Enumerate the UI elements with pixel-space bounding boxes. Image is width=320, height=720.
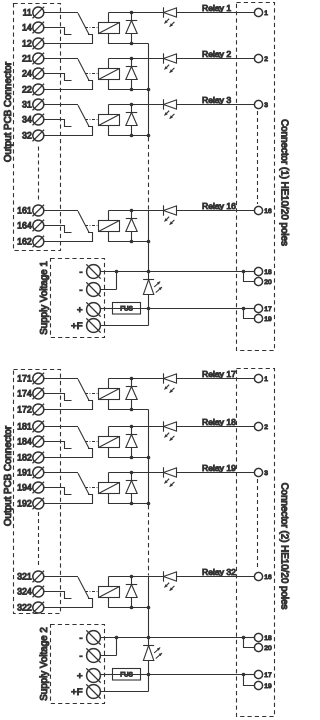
- svg-text:174: 174: [17, 389, 32, 399]
- pin 17 of connector (1): [254, 304, 262, 312]
- svg-text:31: 31: [22, 100, 32, 110]
- svg-text:21: 21: [22, 54, 32, 64]
- wire relay common return chain: [148, 410, 150, 505]
- wire 174 to NC contact: [44, 394, 72, 401]
- mechanical link to coil K19: [85, 487, 99, 489]
- dashed box Connector (2): [237, 369, 275, 717]
- terminal 181: [33, 421, 45, 433]
- wire coil top to drive line: [108, 379, 110, 389]
- wire to pin 17: [244, 308, 255, 310]
- terminal supply plus: [86, 302, 100, 316]
- dashed box Supply Voltage 1: [51, 259, 105, 338]
- wire 31 to contact common: [44, 104, 78, 106]
- node junction: [130, 471, 134, 475]
- terminal 21: [33, 53, 45, 65]
- wire to pin 20: [244, 272, 255, 282]
- node junction: [130, 425, 134, 429]
- pin 19 of connector (1): [254, 314, 262, 322]
- relay contact blade K32: [78, 577, 89, 599]
- wire 24 to NC contact: [44, 74, 72, 81]
- pin 18 of connector (1): [254, 267, 262, 275]
- svg-text:-: -: [79, 633, 82, 644]
- wire fused output line: [141, 674, 244, 676]
- wire to pin 20: [244, 638, 255, 648]
- svg-text:Relay 1: Relay 1: [202, 3, 231, 13]
- relay coil K19: [99, 483, 120, 494]
- node junction: [130, 209, 134, 213]
- svg-text:14: 14: [22, 23, 32, 33]
- terminal 321: [33, 571, 45, 583]
- flyback diode of K19: [126, 473, 137, 504]
- wire coil common: [109, 448, 149, 458]
- wire coil common: [109, 126, 149, 136]
- svg-text:20: 20: [264, 645, 272, 652]
- flyback diode of K2: [126, 59, 137, 90]
- pin 1 of connector (2): [254, 374, 262, 382]
- svg-text:18: 18: [264, 635, 272, 642]
- node minus bus tap: [147, 636, 151, 640]
- svg-text:324: 324: [17, 587, 32, 597]
- svg-text:FUS: FUS: [120, 672, 133, 679]
- wire drive line left: [109, 576, 164, 578]
- LED indicator of Relay 17: [164, 373, 177, 392]
- terminal supply minus b: [86, 282, 100, 296]
- flyback diode of K32: [126, 577, 137, 608]
- wire 184 to NC contact: [44, 442, 72, 449]
- svg-text:Relay 16: Relay 16: [202, 201, 236, 211]
- svg-text:-: -: [79, 651, 82, 662]
- svg-text:12: 12: [22, 39, 32, 49]
- wire drive line right: [177, 210, 255, 212]
- wire 162 to NO contact: [44, 233, 93, 242]
- wire to pin 18: [244, 637, 255, 639]
- relay contact blade K16: [78, 211, 89, 233]
- terminal supply plus fused: [86, 318, 100, 332]
- wire to pin 19: [244, 309, 255, 319]
- svg-text:192: 192: [17, 499, 32, 509]
- LED indicator of Relay 3: [164, 99, 177, 118]
- LED indicator of Relay 18: [164, 421, 177, 440]
- svg-text:181: 181: [17, 422, 32, 432]
- dashed box Output PCB Connector (1): [14, 4, 61, 251]
- wire fused output line: [141, 308, 244, 310]
- terminal 182: [33, 452, 45, 464]
- flyback diode of K17: [126, 379, 137, 410]
- terminal 31: [33, 99, 45, 111]
- dashed box Connector (1): [237, 3, 275, 351]
- node minus join: [115, 270, 119, 274]
- pin 20 of connector (1): [254, 277, 262, 285]
- terminal 12: [33, 38, 45, 50]
- mechanical link to coil K18: [85, 441, 99, 443]
- svg-text:Connector (1) HE10/20 poles: Connector (1) HE10/20 poles: [279, 119, 290, 246]
- flyback diode of K16: [126, 211, 137, 242]
- terminal 191: [33, 467, 45, 479]
- wire to pin 18: [244, 271, 255, 273]
- wire 161 to contact common: [44, 210, 78, 212]
- svg-text:+F: +F: [71, 687, 83, 698]
- wire 192 to NO contact: [44, 495, 93, 504]
- terminal 161: [33, 205, 45, 217]
- wire 172 to NO contact: [44, 401, 93, 410]
- node junction: [147, 606, 151, 610]
- LED indicator of Relay 32: [164, 571, 177, 590]
- svg-text:20: 20: [264, 279, 272, 286]
- wire drive line right: [177, 472, 255, 474]
- wire coil top to drive line: [108, 13, 110, 23]
- relay contact blade K2: [78, 59, 89, 80]
- wire drive line left: [109, 210, 164, 212]
- mechanical link to coil K16: [85, 225, 99, 227]
- wire 34 to NC contact: [44, 120, 72, 127]
- pin 20 of connector (2): [254, 643, 262, 651]
- svg-text:Supply Voltage 2: Supply Voltage 2: [39, 627, 50, 701]
- svg-text:24: 24: [22, 69, 32, 79]
- wire coil common: [109, 400, 149, 410]
- wire pin column continuation (omitted pins): [257, 479, 259, 570]
- svg-text:11: 11: [23, 8, 32, 18]
- terminal 11: [33, 7, 45, 19]
- wire 12 to NO contact: [44, 35, 93, 44]
- wire 164 to NC contact: [44, 226, 72, 233]
- svg-text:3: 3: [264, 102, 268, 109]
- wire drive line right: [177, 426, 255, 428]
- node junction: [130, 606, 134, 610]
- wire drive line right: [177, 378, 255, 380]
- wire 321 to contact common: [44, 576, 78, 578]
- flyback diode of K3: [126, 105, 137, 136]
- svg-text:34: 34: [22, 115, 32, 125]
- mechanical link to coil K17: [85, 393, 99, 395]
- pin 19 of connector (2): [254, 681, 262, 689]
- wire terminal column continuation (omitted relays): [38, 147, 40, 201]
- wire drive line left: [109, 58, 164, 60]
- svg-text:3: 3: [264, 470, 268, 477]
- node junction: [130, 11, 134, 15]
- terminal 172: [33, 404, 45, 416]
- flyback diode of K1: [126, 13, 137, 44]
- node pins 17/19 tie: [242, 307, 246, 311]
- svg-text:19: 19: [264, 683, 272, 690]
- node pins 18/20 tie: [242, 270, 246, 274]
- svg-text:184: 184: [17, 437, 32, 447]
- fuse FUS (supply 1): [113, 303, 141, 315]
- svg-text:2: 2: [264, 424, 268, 431]
- node junction: [130, 134, 134, 138]
- svg-text:+F: +F: [71, 321, 83, 332]
- terminal 174: [33, 388, 45, 400]
- mechanical link to coil K3: [85, 119, 99, 121]
- mechanical link to coil K1: [85, 27, 99, 29]
- pin 2 of connector (1): [254, 54, 262, 62]
- svg-text:194: 194: [17, 483, 32, 493]
- relay coil K17: [99, 389, 120, 400]
- wire drive line right: [177, 58, 255, 60]
- svg-text:16: 16: [264, 208, 272, 215]
- wire drive line left: [109, 104, 164, 106]
- wire coil top to drive line: [108, 577, 110, 587]
- LED indicator of Relay 19: [164, 467, 177, 486]
- node junction: [147, 134, 151, 138]
- terminal supply minus b: [86, 648, 100, 662]
- node pins 17/19 tie: [242, 673, 246, 677]
- wire plus terminal to fuse: [100, 308, 112, 310]
- fuse FUS (supply 2): [113, 669, 141, 681]
- wire drive line left: [109, 426, 164, 428]
- wire 11 to contact common: [44, 12, 78, 14]
- pin 1 of connector (1): [254, 8, 262, 16]
- terminal 162: [33, 236, 45, 248]
- pin 16 of connector (2): [254, 572, 262, 580]
- svg-text:Relay 17: Relay 17: [202, 369, 236, 379]
- node minus bus tap: [147, 270, 151, 274]
- wire coil common: [109, 80, 149, 90]
- pin 16 of connector (1): [254, 206, 262, 214]
- svg-text:Relay 18: Relay 18: [202, 417, 236, 427]
- terminal 324: [33, 586, 45, 598]
- terminal 34: [33, 114, 45, 126]
- terminal supply minus a: [86, 264, 100, 278]
- relay contact blade K1: [78, 13, 89, 35]
- node minus join: [115, 636, 119, 640]
- svg-text:17: 17: [264, 306, 272, 313]
- relay contact blade K3: [78, 105, 89, 127]
- terminal 322: [33, 602, 45, 614]
- node junction: [130, 103, 134, 107]
- wire coil common: [109, 34, 149, 44]
- svg-text:171: 171: [17, 374, 32, 384]
- pin 18 of connector (2): [254, 633, 262, 641]
- node pins 18/20 tie: [242, 636, 246, 640]
- svg-text:162: 162: [17, 237, 32, 247]
- wire coil top to drive line: [108, 59, 110, 69]
- relay coil K18: [99, 437, 120, 448]
- terminal 194: [33, 482, 45, 494]
- node junction: [130, 57, 134, 61]
- wire terminal column continuation (omitted relays): [38, 512, 40, 566]
- relay coil K16: [99, 221, 120, 232]
- wire plus terminal to fuse: [100, 674, 112, 676]
- wire coil common: [109, 494, 149, 504]
- wire 191 to contact common: [44, 472, 78, 474]
- LED indicator of Relay 2: [164, 53, 177, 72]
- svg-text:161: 161: [17, 206, 32, 216]
- relay contact blade K19: [78, 473, 89, 495]
- wire +F terminal to fused node: [100, 675, 148, 692]
- svg-text:322: 322: [17, 603, 32, 613]
- pin 3 of connector (2): [254, 468, 262, 476]
- svg-text:-: -: [79, 285, 82, 296]
- dashed box Output PCB Connector (2): [14, 370, 61, 614]
- node junction: [130, 88, 134, 92]
- node junction: [147, 88, 151, 92]
- wire relay common return chain: [148, 44, 150, 137]
- power LED indicator (supply 1): [143, 272, 162, 309]
- svg-text:+: +: [77, 305, 83, 316]
- node junction: [130, 502, 134, 506]
- terminal 14: [33, 22, 45, 34]
- mechanical link to coil K32: [85, 591, 99, 593]
- wire 194 to NC contact: [44, 488, 72, 495]
- svg-text:321: 321: [17, 572, 32, 582]
- terminal 32: [33, 130, 45, 142]
- svg-text:Relay 3: Relay 3: [202, 95, 231, 105]
- svg-text:Output PCB Connector: Output PCB Connector: [3, 425, 14, 526]
- svg-text:Relay 32: Relay 32: [202, 567, 236, 577]
- terminal 184: [33, 436, 45, 448]
- node fused node: [147, 673, 151, 677]
- wire 32 to NO contact: [44, 127, 93, 136]
- terminal 24: [33, 68, 45, 80]
- node junction: [147, 502, 151, 506]
- svg-text:32: 32: [22, 131, 32, 141]
- wire pin column continuation (omitted pins): [257, 111, 259, 204]
- wire coil top to drive line: [108, 427, 110, 437]
- wire to pin 19: [244, 675, 255, 686]
- pin 17 of connector (2): [254, 670, 262, 678]
- LED indicator of Relay 16: [164, 205, 177, 224]
- wire 324 to NC contact: [44, 592, 72, 599]
- LED indicator of Relay 1: [164, 7, 177, 26]
- wire 171 to contact common: [44, 378, 78, 380]
- svg-text:191: 191: [17, 468, 32, 478]
- wire drive line right: [177, 576, 255, 578]
- flyback diode of K18: [126, 427, 137, 458]
- wire minus bus: [117, 637, 244, 639]
- wire 182 to NO contact: [44, 449, 93, 458]
- node junction: [130, 408, 134, 412]
- svg-text:172: 172: [17, 405, 32, 415]
- pin 3 of connector (1): [254, 100, 262, 108]
- svg-text:Output PCB Connector: Output PCB Connector: [3, 61, 14, 162]
- wire 21 to contact common: [44, 58, 78, 60]
- wire coil top to drive line: [108, 473, 110, 483]
- relay coil K32: [99, 587, 120, 598]
- wire coil common: [109, 598, 149, 608]
- terminal 22: [33, 84, 45, 96]
- node junction: [130, 377, 134, 381]
- node junction: [130, 575, 134, 579]
- svg-text:16: 16: [264, 574, 272, 581]
- terminal supply minus a: [86, 630, 100, 644]
- svg-text:22: 22: [22, 85, 32, 95]
- relay contact blade K17: [78, 379, 89, 401]
- svg-text:164: 164: [17, 221, 32, 231]
- wire 181 to contact common: [44, 426, 78, 428]
- wire +F terminal to fused node: [100, 309, 148, 326]
- svg-text:2: 2: [264, 56, 268, 63]
- wire 322 to NO contact: [44, 599, 93, 608]
- svg-text:FUS: FUS: [120, 306, 133, 313]
- wire coil top to drive line: [108, 211, 110, 221]
- pin 2 of connector (2): [254, 422, 262, 430]
- wire 22 to NO contact: [44, 81, 93, 90]
- node junction: [130, 42, 134, 46]
- power LED indicator (supply 2): [143, 638, 162, 675]
- relay coil K3: [99, 115, 120, 126]
- wire drive line left: [109, 12, 164, 14]
- svg-text:182: 182: [17, 453, 32, 463]
- svg-text:1: 1: [264, 376, 268, 383]
- wire drive line left: [109, 472, 164, 474]
- wire drive line right: [177, 12, 255, 14]
- wire minus bus: [117, 271, 244, 273]
- terminal supply plus fused: [86, 684, 100, 698]
- terminal 164: [33, 220, 45, 232]
- terminal 171: [33, 373, 45, 385]
- relay contact blade K18: [78, 427, 89, 449]
- relay coil K1: [99, 23, 120, 34]
- svg-text:17: 17: [264, 672, 272, 679]
- svg-text:Relay 19: Relay 19: [202, 463, 236, 473]
- terminal 192: [33, 498, 45, 510]
- node junction: [147, 456, 151, 460]
- dashed box Supply Voltage 2: [51, 625, 105, 704]
- node junction: [130, 240, 134, 244]
- svg-text:19: 19: [264, 316, 272, 323]
- svg-text:Supply Voltage 1: Supply Voltage 1: [39, 261, 50, 335]
- wire coil top to drive line: [108, 105, 110, 115]
- wire drive line right: [177, 104, 255, 106]
- wire 14 to NC contact: [44, 28, 72, 35]
- svg-text:Relay 2: Relay 2: [202, 49, 231, 59]
- relay coil K2: [99, 69, 120, 80]
- wire coil common: [109, 232, 149, 242]
- wire to pin 17: [244, 674, 255, 676]
- svg-text:Connector (2) HE10/20 poles: Connector (2) HE10/20 poles: [279, 483, 290, 610]
- svg-text:+: +: [77, 671, 83, 682]
- svg-text:1: 1: [264, 10, 268, 17]
- node fused node: [147, 307, 151, 311]
- svg-text:18: 18: [264, 269, 272, 276]
- wire minus terminals join: [100, 272, 116, 290]
- svg-text:-: -: [79, 267, 82, 278]
- wire minus terminals join: [100, 638, 116, 656]
- node junction: [147, 240, 151, 244]
- terminal supply plus: [86, 668, 100, 682]
- mechanical link to coil K2: [85, 73, 99, 75]
- wire drive line left: [109, 378, 164, 380]
- node junction: [130, 456, 134, 460]
